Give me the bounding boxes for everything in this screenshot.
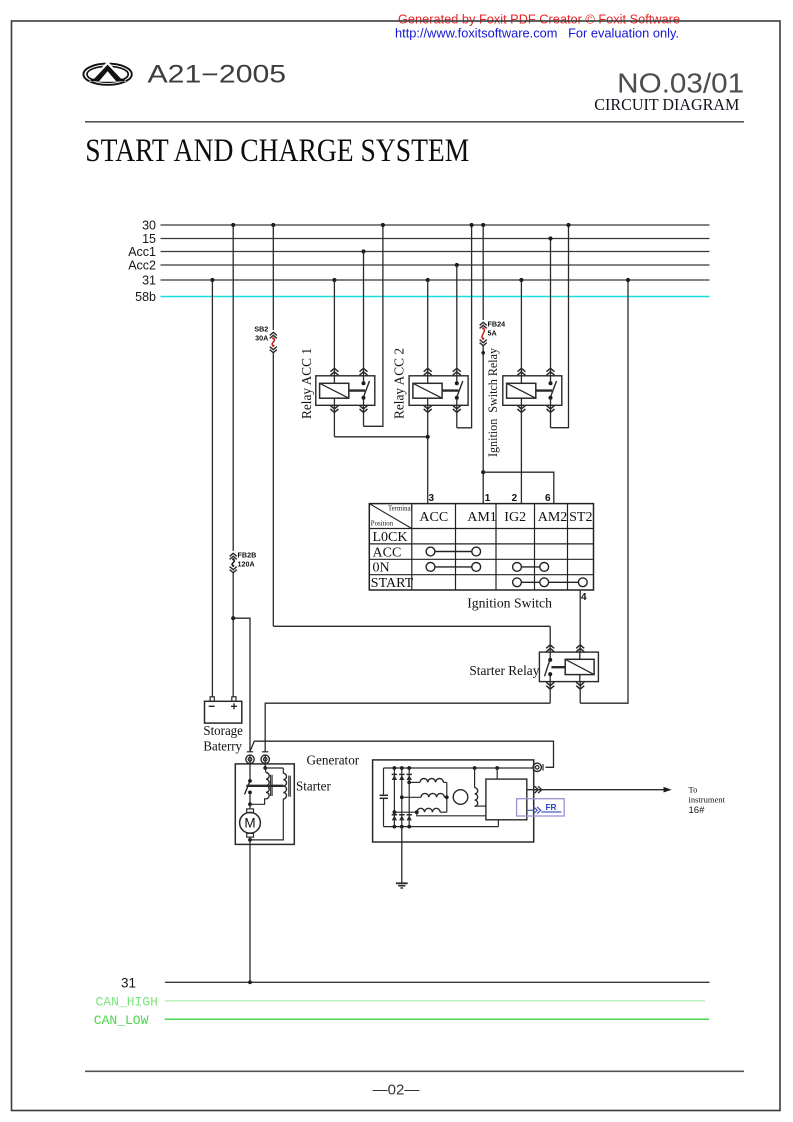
svg-text:30A: 30A <box>255 334 268 343</box>
CAN_HIGH line <box>165 1000 705 1002</box>
svg-text:START AND CHARGE SYSTEM: START AND CHARGE SYSTEM <box>85 133 469 169</box>
ground symbol <box>396 882 408 884</box>
svg-text:0N: 0N <box>373 561 390 576</box>
svg-text:3: 3 <box>429 493 435 504</box>
svg-text:IG2: IG2 <box>504 510 526 525</box>
svg-text:Terminal: Terminal <box>388 506 413 513</box>
wire bus31 to relay ACC2 coil to ignition pin3 <box>426 278 430 282</box>
svg-text:START: START <box>371 576 414 591</box>
rectifier rail top <box>384 767 534 769</box>
footer rule <box>85 1070 744 1072</box>
contacts row START <box>513 578 522 587</box>
fuse FB24 5A <box>480 322 487 328</box>
wire busAcc1 to relay ACC1 switch <box>361 249 365 253</box>
wire bus31 to ign relay coil to pin2 <box>519 278 523 282</box>
wire bus30 to fuse FB24 to pin1 <box>481 223 485 227</box>
relay ACC2 connectors <box>424 368 432 375</box>
capacitor branch <box>383 768 385 795</box>
field winding <box>473 766 477 770</box>
rotor <box>453 790 468 805</box>
junction battery positive branch <box>231 616 235 620</box>
junction pin1 to pin6 branch <box>481 470 485 474</box>
svg-text:Ignition Switch: Ignition Switch <box>467 597 552 612</box>
svg-text:L0CK: L0CK <box>373 530 408 545</box>
wire relay ACC1 coil to junction <box>333 405 335 437</box>
bus Acc1 <box>161 251 710 253</box>
svg-text:31: 31 <box>121 976 136 991</box>
svg-text:FB2B: FB2B <box>238 551 257 560</box>
svg-text:NO.03/01: NO.03/01 <box>617 67 744 98</box>
wire to instrument <box>527 789 664 791</box>
svg-text:Starter Relay: Starter Relay <box>469 663 539 678</box>
svg-text:ST2: ST2 <box>569 510 592 525</box>
ignition switch table grid <box>369 504 593 590</box>
svg-text:16#: 16# <box>689 805 706 816</box>
svg-text:5A: 5A <box>488 329 497 338</box>
starter solenoid switch <box>249 764 251 781</box>
wire SB2 to starter relay switch <box>273 625 550 627</box>
svg-text:ACC: ACC <box>419 510 448 525</box>
generator B+ connector <box>542 764 544 771</box>
svg-text:Relay ACC 1: Relay ACC 1 <box>299 348 314 419</box>
contacts row 0N <box>426 563 435 572</box>
stator windings <box>407 781 411 785</box>
svg-text:Baterry: Baterry <box>203 739 242 754</box>
bus 31 <box>161 279 710 281</box>
header rule <box>85 121 744 123</box>
svg-text:http://www.foxitsoftware.com: http://www.foxitsoftware.com For evaluat… <box>395 25 679 40</box>
svg-text:30: 30 <box>142 219 156 233</box>
wire bus30 to fuse FB2B to battery positive <box>231 223 235 227</box>
svg-text:2: 2 <box>512 493 518 504</box>
junction relay coils to pin3 <box>426 435 430 439</box>
svg-text:Starter: Starter <box>296 779 331 794</box>
relay ACC1 <box>316 376 375 406</box>
svg-text:58b: 58b <box>135 290 156 304</box>
wire battery cable to starter B terminal <box>233 618 250 752</box>
contacts row ACC <box>426 547 435 556</box>
bus Acc2 <box>161 264 710 266</box>
starter box <box>235 764 294 845</box>
svg-text:15: 15 <box>142 232 156 246</box>
bus 58b (cyan) <box>161 296 710 298</box>
relay Ignition Switch Relay <box>503 376 562 406</box>
bus 30 <box>161 224 710 226</box>
wire starter motor to line31 <box>249 844 251 982</box>
solenoid plunger bar <box>246 785 283 787</box>
wire relay ACC1 switch to bus30 loop <box>363 405 365 426</box>
svg-text:To: To <box>689 785 698 795</box>
wire relay ACC2 switch to bus30 loop <box>456 405 458 428</box>
starter relay <box>539 652 598 682</box>
svg-text:Storage: Storage <box>203 723 243 738</box>
stator sense wire to regulator <box>417 812 486 816</box>
ground wire <box>401 827 403 884</box>
wire ign relay switch to bus30 loop <box>550 405 552 427</box>
wire bus15 to ign relay switch <box>548 236 552 240</box>
starter relay connectors <box>546 645 554 652</box>
svg-text:6: 6 <box>545 493 551 504</box>
svg-text:instrument: instrument <box>689 795 726 805</box>
svg-text:Ignition Switch Relay: Ignition Switch Relay <box>486 347 500 457</box>
starter motor M <box>249 804 251 809</box>
svg-text:—02—: —02— <box>373 1082 420 1099</box>
ignition switch relay connectors <box>517 368 525 375</box>
relay ACC1 connectors <box>330 368 338 375</box>
svg-text:SB2: SB2 <box>254 325 268 334</box>
svg-text:Relay ACC 2: Relay ACC 2 <box>391 348 406 419</box>
svg-text:Acc2: Acc2 <box>128 259 156 273</box>
fuse SB2 30A <box>270 332 277 338</box>
svg-text:M: M <box>244 816 255 831</box>
svg-text:ACC: ACC <box>373 545 402 560</box>
svg-text:CAN_LOW: CAN_LOW <box>94 1013 149 1028</box>
svg-text:CAN_HIGH: CAN_HIGH <box>96 995 158 1010</box>
wire battery tap to generator B+ <box>250 741 554 767</box>
FR highlight box <box>517 799 565 816</box>
svg-text:4: 4 <box>581 592 587 603</box>
svg-text:Acc1: Acc1 <box>128 245 156 259</box>
fuse FB2B 120A <box>230 553 237 559</box>
wire starter relay switch to solenoid S <box>549 682 551 704</box>
bus 15 <box>161 238 710 240</box>
svg-text:120A: 120A <box>238 560 255 569</box>
line 31 bottom <box>165 981 710 983</box>
generator box <box>373 760 534 842</box>
svg-text:31: 31 <box>142 274 156 288</box>
storage battery <box>205 701 242 723</box>
table diagonal cell <box>369 504 412 529</box>
svg-text:AM1: AM1 <box>467 510 497 525</box>
svg-text:AM2: AM2 <box>538 510 568 525</box>
svg-text:1: 1 <box>485 493 491 504</box>
wire bus31 to battery negative <box>210 278 214 282</box>
connector starter S <box>262 751 268 753</box>
wire bus30 to fuse SB2 <box>271 223 275 227</box>
svg-text:Generated by Foxit PDF Creator: Generated by Foxit PDF Creator © Foxit S… <box>398 11 680 26</box>
regulator <box>486 779 527 820</box>
wire busAcc2 to relay ACC2 switch <box>455 263 459 267</box>
solenoid coil returns <box>249 794 251 804</box>
relay ACC2 <box>409 376 468 406</box>
wire pin4 to starter relay coil <box>579 590 581 652</box>
svg-text:FB24: FB24 <box>488 320 506 329</box>
svg-text:Generator: Generator <box>307 753 360 768</box>
FR output <box>527 809 534 811</box>
wire bus31 to relay ACC1 coil <box>332 278 336 282</box>
CAN_LOW line <box>165 1018 709 1020</box>
starter solenoid coils <box>264 764 266 768</box>
svg-text:A21−2005: A21−2005 <box>148 61 287 88</box>
svg-text:CIRCUIT DIAGRAM: CIRCUIT DIAGRAM <box>594 95 739 114</box>
Chery logo <box>83 63 131 85</box>
connector starter B <box>247 751 253 753</box>
rectifier diodes <box>393 766 397 770</box>
svg-text:Position: Position <box>371 521 394 528</box>
wire starter relay coil to bus31 <box>579 682 581 704</box>
rectifier rail bottom <box>384 826 499 828</box>
svg-text:FR: FR <box>546 803 557 812</box>
